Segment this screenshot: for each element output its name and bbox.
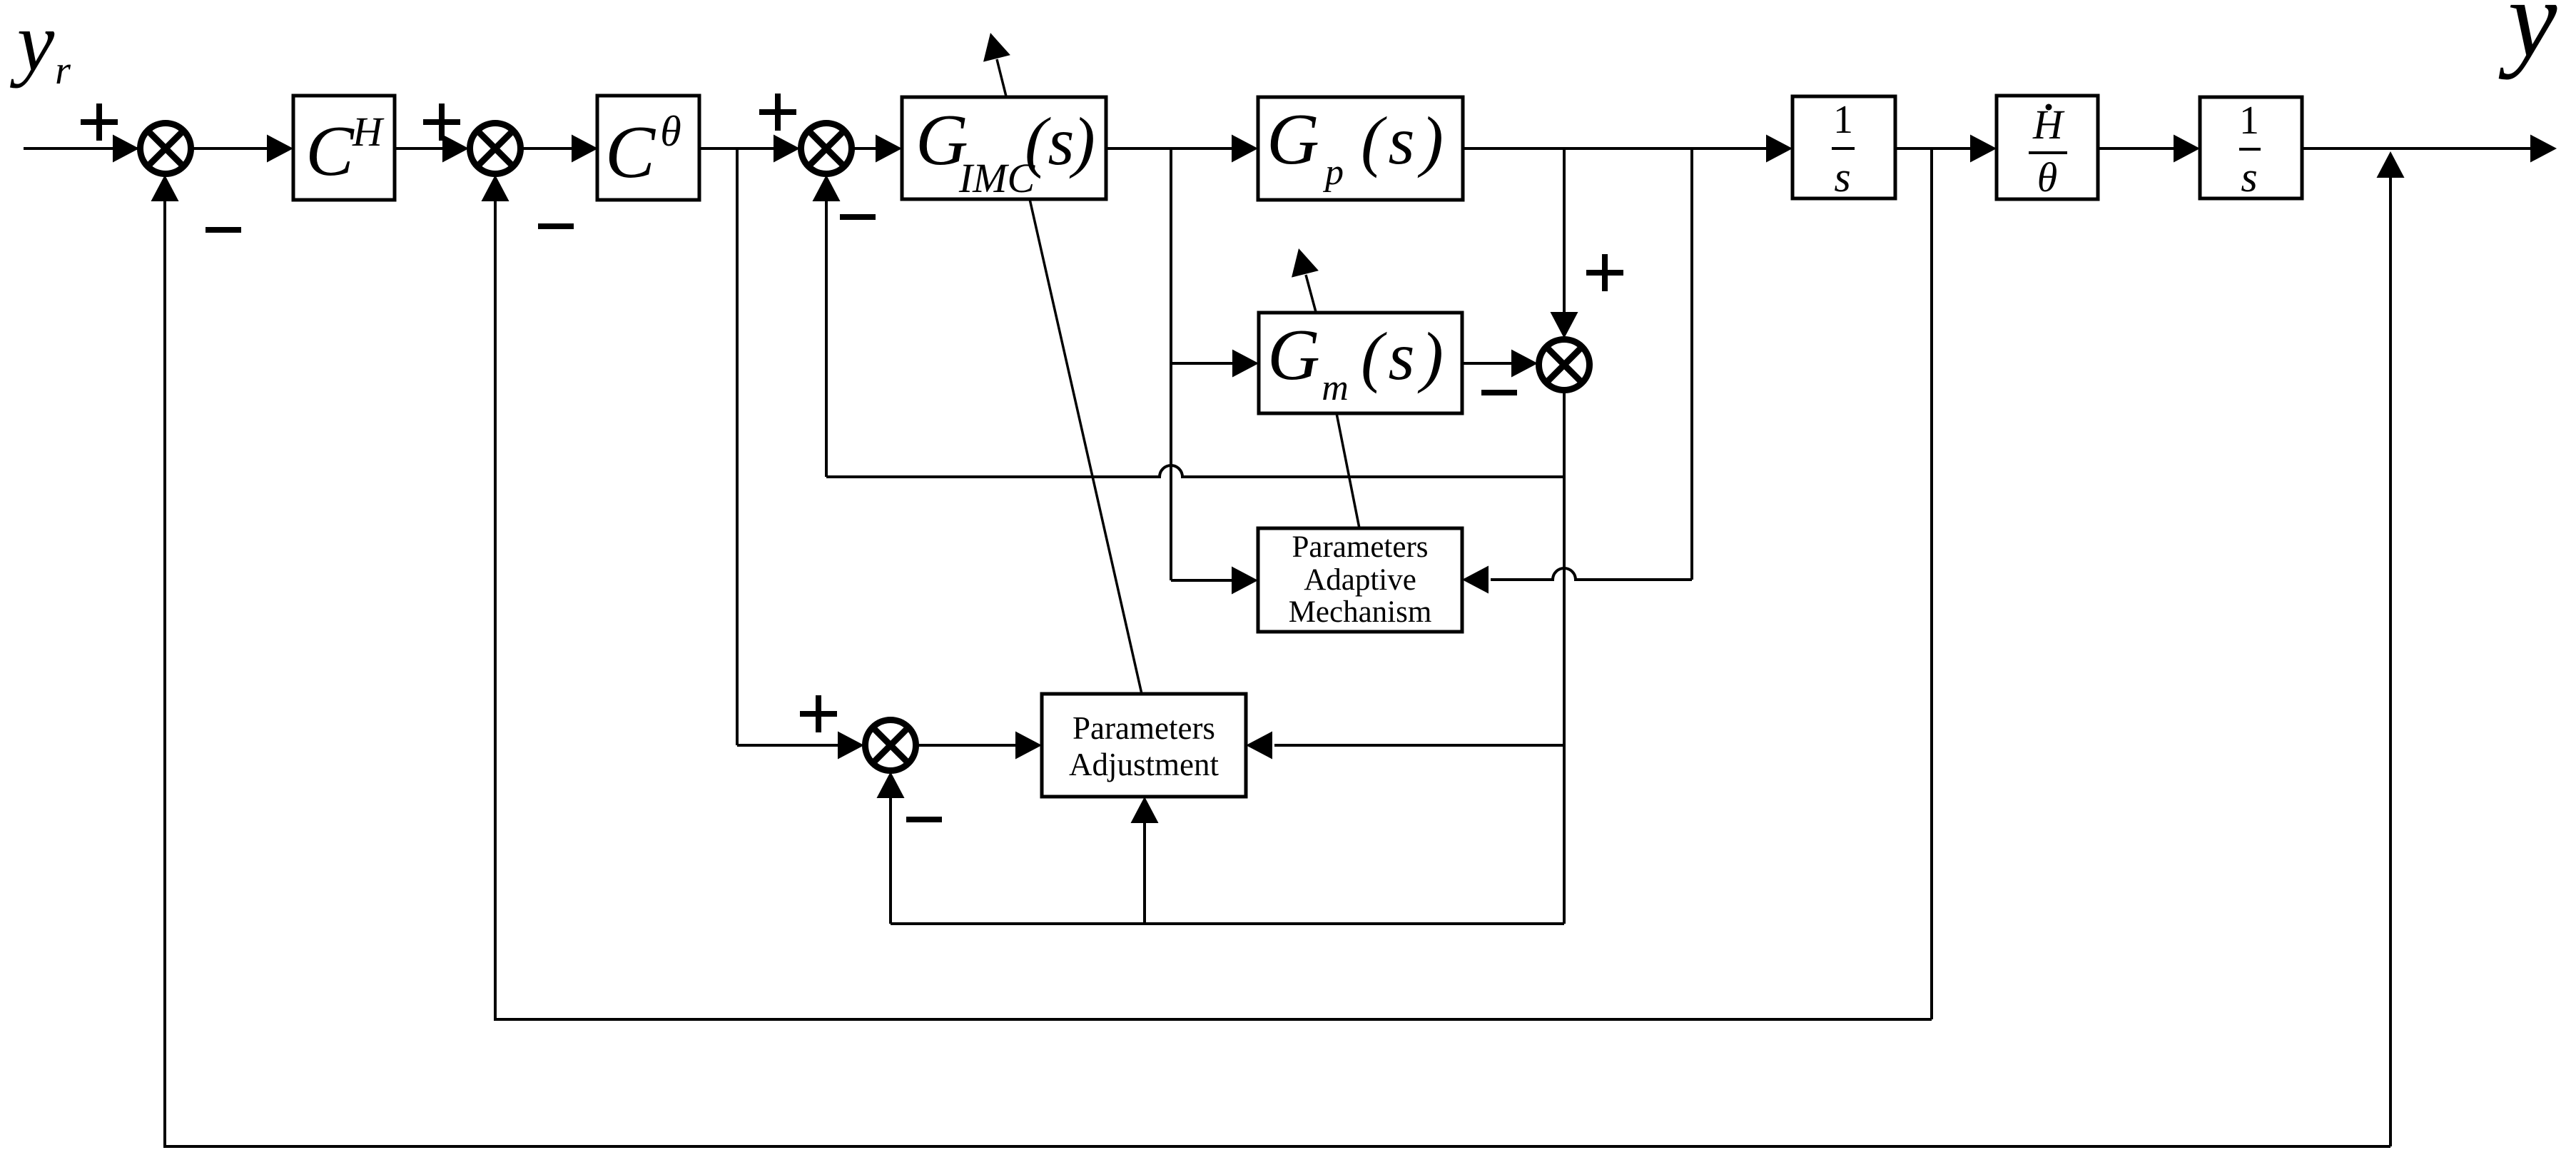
wire Gm output to S4 bbox=[1462, 350, 1538, 378]
sum S4 bbox=[1539, 340, 1590, 390]
block Hdot over theta bbox=[1997, 96, 2098, 201]
wire S4 branch into PA right side bbox=[1246, 732, 1564, 760]
sum S2 bbox=[470, 123, 521, 174]
svg-text:s: s bbox=[2241, 153, 2257, 201]
wire S4 output down with branches bbox=[1563, 391, 1566, 924]
wire output to y bbox=[2302, 135, 2557, 163]
block G_m(s) bbox=[1259, 313, 1462, 413]
block G_IMC(s) bbox=[902, 97, 1106, 201]
sum S5 bbox=[866, 720, 916, 771]
svg-text:y: y bbox=[10, 0, 55, 89]
label + at S3 input bbox=[759, 94, 796, 131]
svg-text:Parameters: Parameters bbox=[1073, 710, 1215, 746]
node y_r (reference input label) bbox=[10, 0, 71, 93]
svg-text:s: s bbox=[1834, 153, 1850, 201]
block C^theta bbox=[597, 96, 699, 200]
svg-text:1: 1 bbox=[2239, 99, 2259, 143]
wire outer feedback loop bbox=[151, 151, 2405, 1146]
wire tap after Gp down to PAM right with hop bbox=[1462, 148, 1692, 594]
svg-text:s: s bbox=[1389, 318, 1415, 394]
label + at S4 top input bbox=[1586, 254, 1623, 291]
svg-text:Adjustment: Adjustment bbox=[1069, 747, 1219, 782]
wire S2 to Ctheta bbox=[522, 135, 598, 163]
svg-text:IMC: IMC bbox=[958, 155, 1036, 201]
svg-text:θ: θ bbox=[660, 108, 681, 155]
svg-text:θ: θ bbox=[2037, 154, 2058, 201]
wire integrator1 to Hdot-theta with tap bbox=[1895, 135, 1997, 163]
wire tap B down to Gm and PAM bbox=[1170, 148, 1172, 580]
wire adaptation arrow PAM to Gm bbox=[1285, 245, 1359, 528]
wire adaptation arrow PA to GIMC bbox=[977, 29, 1142, 694]
wire middle feedback loop bbox=[482, 148, 1932, 1019]
wire into Gm bbox=[1171, 350, 1259, 378]
svg-text:): ) bbox=[1069, 104, 1095, 179]
svg-text:Adaptive: Adaptive bbox=[1304, 563, 1416, 597]
wire GIMC to Gp with tap node B bbox=[1106, 135, 1258, 163]
svg-text:G: G bbox=[1267, 99, 1319, 180]
wire S1 to CH bbox=[192, 135, 293, 163]
node y (output label) bbox=[2499, 0, 2557, 80]
svg-text:(: ( bbox=[1361, 103, 1387, 178]
wire model error to S3 feedback with hop bbox=[813, 175, 1565, 477]
svg-text:1: 1 bbox=[1833, 98, 1853, 142]
svg-text:Mechanism: Mechanism bbox=[1289, 595, 1432, 629]
block integrator 1/s first bbox=[1792, 96, 1895, 201]
label + at S5 input bbox=[800, 695, 837, 732]
svg-text:s: s bbox=[1389, 103, 1415, 178]
label - at S1 feedback bbox=[206, 227, 241, 233]
svg-text:): ) bbox=[1417, 318, 1444, 394]
block C^H bbox=[293, 96, 395, 200]
svg-text:): ) bbox=[1417, 103, 1444, 178]
svg-text:p: p bbox=[1322, 152, 1344, 193]
svg-text:y: y bbox=[2499, 0, 2557, 80]
wire tap down into sum S4 from main line bbox=[1551, 148, 1578, 338]
sum S1 bbox=[141, 123, 191, 174]
wire into PAM left bbox=[1171, 567, 1258, 595]
wire Ctheta to sum S3 with tap node A bbox=[699, 135, 800, 163]
label + at S2 input bbox=[423, 104, 460, 141]
label - at S3 feedback bbox=[840, 214, 876, 220]
block G_p(s) bbox=[1258, 97, 1463, 200]
wire tap A down to sum S5 bbox=[737, 148, 864, 760]
wire input yr to sum S1 bbox=[24, 135, 142, 163]
label - at S2 feedback bbox=[538, 223, 574, 229]
wire Hdot-theta to integrator2 bbox=[2098, 135, 2200, 163]
svg-text:H: H bbox=[352, 109, 385, 155]
svg-text:G: G bbox=[1267, 315, 1320, 395]
block integrator 1/s second bbox=[2200, 97, 2302, 201]
label + at S1 input bbox=[81, 104, 118, 141]
wire S5 to Parameters Adjustment bbox=[917, 732, 1042, 760]
wire Gp to integrator1 with taps bbox=[1463, 135, 1792, 163]
sum S3 bbox=[801, 123, 852, 174]
svg-text:(: ( bbox=[1361, 318, 1387, 394]
label - at S4 left input bbox=[1481, 390, 1517, 395]
wire S3 to GIMC bbox=[853, 135, 902, 163]
svg-text:r: r bbox=[55, 49, 71, 93]
wire inner bottom loop to S5 and PA bottom bbox=[877, 772, 1565, 924]
svg-text:Parameters: Parameters bbox=[1292, 530, 1428, 564]
svg-text:C: C bbox=[605, 110, 656, 193]
label - at S5 feedback bbox=[906, 817, 942, 822]
block Parameters Adjustment bbox=[1042, 694, 1246, 797]
svg-text:C: C bbox=[305, 111, 355, 191]
svg-text:s: s bbox=[1048, 104, 1075, 179]
svg-text:m: m bbox=[1322, 368, 1349, 408]
wire CH to sum S2 bbox=[395, 135, 469, 163]
block Parameters Adaptive Mechanism bbox=[1258, 528, 1462, 632]
